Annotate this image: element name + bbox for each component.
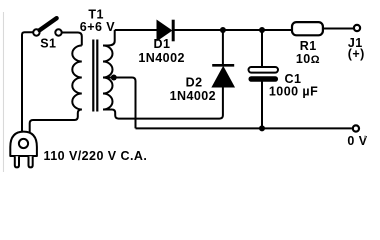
wire D2 cathode lead bbox=[222, 30, 224, 65]
svg-text:R1: R1 bbox=[300, 39, 317, 53]
transformer T1 secondary winding bbox=[103, 30, 115, 110]
svg-text:10Ω: 10Ω bbox=[296, 52, 320, 66]
switch S1 bbox=[33, 18, 62, 36]
junction dot D2 branch bbox=[220, 27, 226, 33]
wire secondary bottom to D2 anode bbox=[103, 88, 223, 119]
svg-text:S1: S1 bbox=[40, 37, 56, 51]
svg-text:D1: D1 bbox=[154, 37, 171, 51]
junction center tap bbox=[111, 75, 117, 81]
diode D2 bbox=[212, 65, 234, 87]
mains plug bbox=[10, 132, 37, 168]
wire R1 to J1 bbox=[323, 28, 353, 30]
terminal J1 bbox=[354, 25, 360, 31]
wire C1 bottom lead bbox=[261, 81, 263, 128]
terminal 0V bbox=[353, 125, 359, 131]
transformer core bbox=[92, 40, 94, 112]
svg-text:110 V/220 V C.A.: 110 V/220 V C.A. bbox=[44, 149, 148, 163]
scan artifact line bbox=[3, 12, 5, 172]
svg-text:(+): (+) bbox=[348, 47, 365, 61]
junction dot C1 branch bbox=[259, 27, 265, 33]
wire primary bottom lead to plug bbox=[30, 110, 82, 134]
wire S1 to transformer primary top bbox=[62, 33, 82, 46]
svg-text:1N4002: 1N4002 bbox=[138, 51, 185, 65]
wire center tap to 0V rail bbox=[104, 78, 136, 129]
capacitor C1 bbox=[249, 67, 279, 82]
resistor R1 bbox=[292, 22, 323, 35]
svg-text:6+6 V: 6+6 V bbox=[80, 20, 115, 34]
wire C1 top lead bbox=[261, 30, 263, 67]
svg-text:1000 µF: 1000 µF bbox=[269, 84, 318, 98]
transformer T1 primary winding bbox=[72, 46, 82, 110]
diode D1 bbox=[157, 20, 173, 42]
0V rail wire bbox=[136, 127, 352, 129]
top rail wire right segment bbox=[175, 29, 292, 31]
top rail wire left segment bbox=[115, 29, 157, 31]
svg-text:D2: D2 bbox=[186, 75, 203, 89]
junction dot C1 bottom bbox=[259, 125, 265, 131]
svg-text:1N4002: 1N4002 bbox=[170, 89, 217, 103]
wire left vertical from S1 down to plug bbox=[22, 32, 33, 133]
